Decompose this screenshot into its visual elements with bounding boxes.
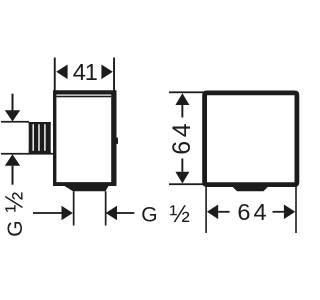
vertical 64 dim: bottom extension line <box>169 183 204 185</box>
svg-text:41: 41 <box>73 59 97 85</box>
horizontal 64 dim: right extension line <box>295 185 297 234</box>
horizontal 64 dim: left arrowhead (pointing left) <box>207 205 218 220</box>
wall outlet body (side view) outline <box>53 90 117 186</box>
horizontal G1/2 dim: right tail <box>117 212 134 214</box>
svg-text:½: ½ <box>170 201 190 228</box>
svg-text:64: 64 <box>237 199 269 225</box>
dimension 41: left arrowhead <box>56 65 67 80</box>
vertical 64 dim: top extension line <box>169 91 204 93</box>
vertical G1/2 dim: bottom extension line <box>1 153 54 155</box>
body right-edge notch <box>115 138 118 144</box>
vertical G1/2 dim: top extension line <box>1 121 29 123</box>
outlet nipple right line <box>105 191 107 225</box>
horizontal G1/2 dim: left tail <box>33 212 62 214</box>
body inner top line <box>56 96 111 98</box>
svg-text:G: G <box>141 203 157 226</box>
threaded inlet connector (hatched) <box>29 122 51 153</box>
vertical G1/2 dim: upper arrow (pointing down) <box>12 94 14 111</box>
escutcheon square outline <box>202 91 299 188</box>
svg-text:64: 64 <box>168 120 196 155</box>
vertical 64 dim: top arrow (pointing up) <box>175 93 189 105</box>
outlet nipple left line <box>73 191 75 225</box>
vertical 64 dim: bottom arrow (pointing down) <box>175 172 189 184</box>
svg-text:G: G <box>4 220 27 236</box>
horizontal G1/2 dim: left arrowhead (pointing right) <box>62 206 73 221</box>
vertical G1/2 dim: lower arrow (pointing up) <box>5 154 20 166</box>
dimension 41: right arrowhead <box>101 65 112 80</box>
horizontal G1/2 dim: right arrowhead (pointing left) <box>106 206 117 221</box>
horizontal 64 dim: left extension line <box>205 185 207 234</box>
horizontal 64 dim: right arrowhead (pointing right) <box>284 205 295 220</box>
svg-text:½: ½ <box>1 192 29 213</box>
outlet step (black trapezoid under body) <box>65 186 109 191</box>
outlet mouth (front) <box>233 187 269 191</box>
dimension 41: right extension line <box>113 58 115 92</box>
dimension 41: left extension line <box>54 58 56 92</box>
